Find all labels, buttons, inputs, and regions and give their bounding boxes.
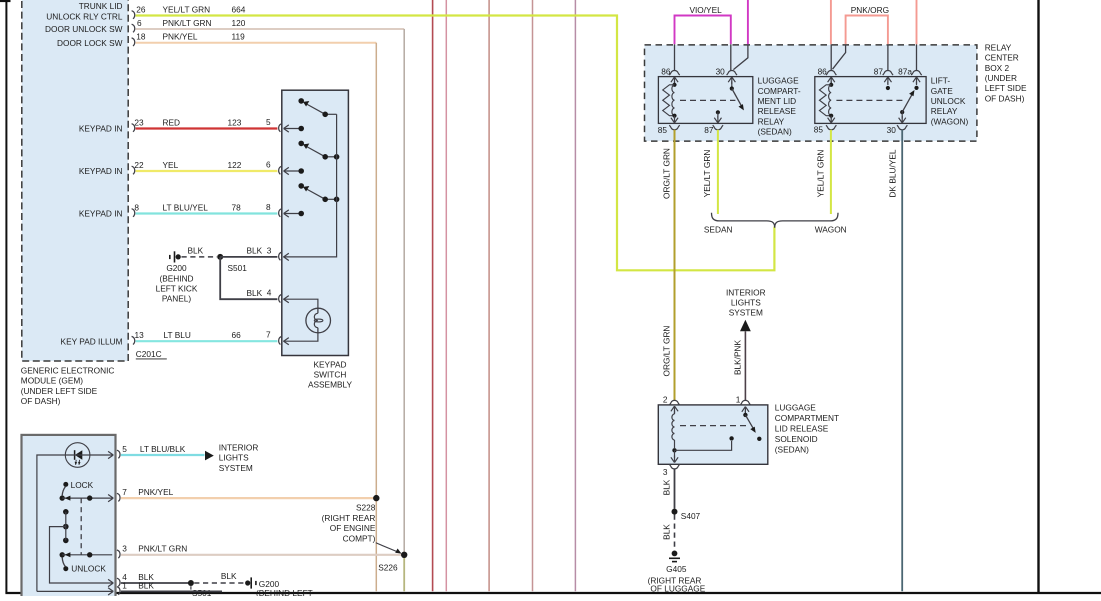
keypad switch assembly caption	[308, 359, 353, 389]
svg-text:LT BLU/BLK: LT BLU/BLK	[140, 444, 186, 454]
svg-text:KEYPAD IN: KEYPAD IN	[79, 209, 123, 219]
svg-text:BLK: BLK	[138, 581, 154, 591]
solenoid caption	[775, 403, 839, 455]
svg-text:85: 85	[658, 125, 668, 135]
svg-text:S501: S501	[228, 263, 248, 273]
svg-text:BLK/PNK: BLK/PNK	[732, 340, 742, 376]
svg-text:5: 5	[122, 444, 127, 454]
svg-text:30: 30	[887, 125, 897, 135]
GEM pin 18 connector	[132, 32, 246, 47]
svg-text:OF LUGGAGE: OF LUGGAGE	[650, 583, 705, 593]
GEM pin 8 connector	[132, 202, 271, 217]
relay center box 2 (dashed)	[645, 45, 977, 141]
svg-text:122: 122	[228, 160, 242, 170]
label BLK upper	[662, 479, 672, 495]
frame top-left corner stub	[0, 0, 11, 2]
wire LT BLU/YEL keypad row	[136, 212, 278, 214]
svg-text:26: 26	[136, 4, 146, 14]
keypad illumination lamp	[306, 308, 331, 333]
svg-text:LT BLU: LT BLU	[164, 330, 191, 340]
svg-text:LUGGAGE: LUGGAGE	[758, 76, 800, 86]
svg-text:18: 18	[136, 32, 146, 42]
svg-text:LOCK: LOCK	[71, 480, 94, 490]
svg-text:KEYPAD IN: KEYPAD IN	[79, 124, 123, 134]
svg-text:SWITCH: SWITCH	[314, 369, 347, 379]
wire YEL/LT GRN wagon pin 85 to brace	[830, 130, 832, 214]
svg-text:UNLOCK RLY CTRL: UNLOCK RLY CTRL	[46, 11, 123, 21]
svg-text:YEL/LT GRN: YEL/LT GRN	[702, 150, 712, 198]
wire BLK pin 4 to S501	[121, 582, 190, 584]
svg-text:BLK: BLK	[662, 524, 672, 540]
svg-text:RED: RED	[163, 117, 181, 127]
door lock switch pin 5 internal wire	[37, 451, 113, 591]
wagon relay caption	[931, 76, 969, 127]
svg-text:PNK/YEL: PNK/YEL	[163, 32, 198, 42]
svg-text:(RIGHT REAR: (RIGHT REAR	[322, 513, 376, 523]
splice S228	[373, 495, 379, 501]
svg-text:INTERIOR: INTERIOR	[726, 287, 766, 297]
splice S501 (keypad)	[217, 254, 247, 273]
svg-text:23: 23	[134, 117, 144, 127]
svg-text:1: 1	[122, 581, 127, 591]
svg-text:85: 85	[814, 125, 824, 135]
label BLK/PNK	[732, 340, 742, 376]
svg-text:123: 123	[228, 117, 242, 127]
svg-text:BLK: BLK	[247, 288, 263, 298]
svg-text:7: 7	[266, 330, 271, 340]
wire S226 lower segment olive	[403, 555, 405, 591]
keypad switch 3	[284, 183, 340, 217]
svg-text:LIGHTS: LIGHTS	[731, 298, 761, 308]
svg-text:ORG/LT GRN: ORG/LT GRN	[662, 326, 672, 377]
wire salmon vertical x489	[488, 0, 490, 591]
wire PNK/YEL pin 7 to S228	[121, 497, 376, 499]
svg-text:BLK: BLK	[247, 246, 263, 256]
relay center box 2 caption	[985, 42, 1027, 103]
keypad connector pin 8	[279, 209, 282, 217]
svg-text:YEL/LT GRN: YEL/LT GRN	[816, 150, 826, 198]
keypad lamp to pin 7 wire	[283, 332, 318, 345]
label YEL/LT GRN sedan	[702, 150, 712, 198]
svg-text:YEL: YEL	[163, 160, 179, 170]
svg-text:LEFT KICK: LEFT KICK	[156, 283, 198, 293]
svg-text:OF DASH): OF DASH)	[21, 396, 61, 406]
svg-text:SEDAN: SEDAN	[704, 224, 733, 234]
label SEDAN	[704, 224, 733, 234]
wire PNK/LT GRN pin 3 to S226	[121, 554, 404, 556]
door lock connector pin 1	[117, 581, 154, 595]
wire PNK/ORG from top edge to pin 87a	[916, 0, 918, 44]
svg-text:4: 4	[267, 288, 272, 298]
svg-text:1: 1	[736, 395, 741, 405]
label ORG/LT GRN lower	[662, 326, 672, 377]
svg-text:LEFT SIDE: LEFT SIDE	[985, 83, 1027, 93]
door lock switch LED diode	[75, 450, 83, 465]
frame bottom border line	[5, 592, 1101, 594]
svg-text:(WAGON): (WAGON)	[931, 116, 969, 126]
wire VIO/YEL from top edge	[747, 0, 749, 44]
luggage compartment lid release relay inner box	[658, 77, 752, 124]
svg-text:LIGHTS: LIGHTS	[219, 453, 249, 463]
wire RED keypad row	[136, 127, 278, 129]
door lock pin 1 internal row	[37, 588, 113, 595]
GEM pin 6 connector	[132, 18, 246, 33]
GEM pin 22 connector	[132, 160, 271, 175]
sedan relay switch blade	[730, 86, 744, 110]
wire LT BLU keypad illumination row	[136, 340, 278, 342]
svg-text:87a: 87a	[898, 67, 912, 77]
wire BLK dashed to S501	[182, 246, 218, 257]
svg-text:UNLOCK: UNLOCK	[931, 96, 966, 106]
sedan relay coil	[663, 83, 677, 118]
svg-text:GENERIC ELECTRONIC: GENERIC ELECTRONIC	[21, 366, 115, 376]
svg-text:PANEL): PANEL)	[162, 294, 192, 304]
svg-text:PNK/LT GRN: PNK/LT GRN	[138, 544, 187, 554]
label WAGON	[815, 224, 847, 234]
wire BLK pin 1	[121, 590, 222, 592]
keypad connector pin 5	[279, 124, 282, 132]
svg-text:(BEHIND: (BEHIND	[159, 273, 193, 283]
svg-text:86: 86	[661, 67, 671, 77]
GEM pin 23 connector	[132, 117, 271, 132]
svg-text:5: 5	[266, 117, 271, 127]
svg-text:3: 3	[663, 467, 668, 477]
wire PNK/ORG from top edge to pin 86	[830, 0, 832, 44]
ground G200 caption	[156, 263, 198, 304]
wagon relay pin 30	[887, 112, 908, 135]
sedan relay contact 87	[704, 110, 723, 135]
svg-text:WAGON: WAGON	[815, 224, 847, 234]
door lock connector pin 7	[117, 487, 174, 502]
svg-text:OF ENGINE: OF ENGINE	[330, 523, 376, 533]
svg-text:BLK: BLK	[188, 246, 204, 256]
label YEL/LT GRN wagon	[816, 150, 826, 198]
svg-text:BOX 2: BOX 2	[985, 63, 1010, 73]
solenoid mechanical dashed link	[680, 425, 750, 427]
svg-text:13: 13	[135, 330, 145, 340]
sedan relay mechanical dashed link	[680, 99, 735, 101]
sedan relay pin 85	[658, 116, 680, 135]
wagon relay pin 87	[874, 44, 893, 90]
svg-text:SYSTEM: SYSTEM	[219, 463, 253, 473]
GEM caption text	[21, 366, 115, 406]
svg-text:S226: S226	[378, 562, 398, 572]
svg-text:RELAY: RELAY	[985, 42, 1012, 52]
door lock middle contact chain	[63, 509, 69, 543]
label ORG/LT GRN upper	[662, 148, 672, 199]
solenoid pin 2	[663, 395, 680, 415]
solenoid internal contact wire	[675, 436, 734, 450]
svg-text:VIO/YEL: VIO/YEL	[689, 5, 722, 15]
svg-text:(UNDER: (UNDER	[985, 73, 1017, 83]
svg-text:KEYPAD: KEYPAD	[313, 359, 346, 369]
wire LT BLU/BLK to interior lights	[121, 454, 205, 456]
wire BLK keypad pin 3	[220, 246, 277, 257]
svg-text:2: 2	[663, 395, 668, 405]
wire BLK S501 to keypad pin 4	[220, 257, 277, 299]
wire ORG/LT GRN relay 85 to solenoid pin 2	[674, 130, 676, 401]
svg-text:119: 119	[232, 32, 246, 42]
svg-text:INTERIOR: INTERIOR	[219, 443, 259, 453]
keypad connector pin 6	[279, 166, 282, 174]
svg-text:COMPT): COMPT)	[343, 533, 376, 543]
svg-text:120: 120	[232, 18, 246, 28]
wire rose vertical x576	[574, 0, 576, 591]
brace joining sedan and wagon wires	[712, 213, 839, 228]
door lock common wire to pin 4	[50, 527, 114, 587]
solenoid coil	[672, 414, 677, 452]
arrow from S228 caption to splice S226	[376, 543, 402, 554]
wire BLK/PNK solenoid pin 1 up	[744, 331, 746, 400]
door lock LOCK blade	[62, 480, 93, 495]
door lock connector pin 3	[117, 544, 187, 559]
keypad connector pin 3	[279, 252, 282, 260]
wire PNK/YEL from GEM pin 18 down column x376	[136, 43, 377, 592]
svg-text:LUGGAGE: LUGGAGE	[775, 403, 817, 413]
solenoid pin 3	[663, 450, 680, 477]
keypad connector pin 4 and lamp feed	[279, 294, 318, 309]
keypad switch 1	[284, 98, 337, 132]
svg-text:6: 6	[137, 18, 142, 28]
svg-text:C201C: C201C	[136, 349, 162, 359]
svg-text:SYSTEM: SYSTEM	[729, 308, 763, 318]
svg-text:87: 87	[704, 125, 714, 135]
wire RED vertical x433	[432, 0, 434, 591]
svg-text:KEYPAD IN: KEYPAD IN	[79, 166, 123, 176]
svg-text:BLK: BLK	[662, 479, 672, 495]
label BLK lower	[662, 524, 672, 540]
svg-text:22: 22	[134, 160, 144, 170]
door lock connector pin 5	[117, 444, 186, 459]
svg-text:3: 3	[267, 246, 272, 256]
interior lights system text (middle)	[726, 287, 766, 317]
ground G405 symbol	[669, 551, 680, 562]
door lock pin 3 internal row	[62, 552, 112, 557]
frame left border line	[5, 0, 7, 593]
GEM pin 26 connector	[132, 4, 246, 18]
svg-text:DK BLU/YEL: DK BLU/YEL	[888, 149, 898, 197]
wagon relay pin 85	[814, 116, 837, 135]
svg-text:MENT LID: MENT LID	[758, 96, 797, 106]
svg-text:S407: S407	[681, 511, 701, 521]
svg-text:ASSEMBLY: ASSEMBLY	[308, 379, 353, 389]
S228 caption	[322, 503, 376, 544]
svg-text:KEY PAD ILLUM: KEY PAD ILLUM	[61, 336, 123, 346]
splice S226	[378, 552, 407, 573]
ground G405 caption	[648, 564, 706, 593]
svg-text:BLK: BLK	[221, 571, 237, 581]
door lock switch LED circle	[65, 443, 90, 468]
svg-text:UNLOCK: UNLOCK	[71, 564, 106, 574]
door lock pin 7 internal row	[60, 495, 114, 502]
ground G200 symbol (keypad)	[170, 251, 181, 262]
keypad connector pin 7	[279, 336, 282, 344]
svg-text:8: 8	[266, 202, 271, 212]
svg-text:G405: G405	[666, 564, 687, 574]
wire YEL/LT GRN net from GEM pin 26 to relay brace	[136, 16, 775, 271]
svg-text:30: 30	[716, 67, 726, 77]
wire YEL keypad row	[136, 170, 278, 172]
svg-text:RELAY: RELAY	[758, 116, 785, 126]
svg-text:SOLENOID: SOLENOID	[775, 434, 818, 444]
svg-text:PNK/ORG: PNK/ORG	[851, 5, 889, 15]
svg-text:(SEDAN): (SEDAN)	[758, 127, 792, 137]
wire salmon vertical x533	[532, 0, 534, 591]
door lock connector pin 4	[117, 572, 154, 587]
wire PNK/LT GRN from GEM pin 6 down column x404	[136, 29, 405, 555]
GEM module box (GENERIC ELECTRONIC MODULE)	[22, 0, 128, 361]
door lock switch box	[22, 435, 116, 601]
svg-text:LT BLU/YEL: LT BLU/YEL	[163, 202, 209, 212]
svg-text:DOOR LOCK SW: DOOR LOCK SW	[57, 38, 123, 48]
svg-text:DOOR UNLOCK SW: DOOR UNLOCK SW	[45, 24, 123, 34]
GEM pin 13 connector	[132, 330, 271, 345]
connector label C201C	[136, 349, 167, 359]
frame right border line	[1037, 0, 1039, 593]
svg-text:OF DASH): OF DASH)	[985, 93, 1025, 103]
luggage compartment lid release solenoid box	[658, 405, 768, 464]
svg-text:RELEASE: RELEASE	[758, 106, 797, 116]
svg-text:PNK/YEL: PNK/YEL	[138, 487, 173, 497]
svg-text:3: 3	[122, 544, 127, 554]
wagon relay coil	[819, 83, 833, 118]
solenoid pin 1	[736, 395, 751, 414]
svg-text:YEL/LT GRN: YEL/LT GRN	[163, 4, 211, 14]
svg-text:8: 8	[134, 202, 139, 212]
svg-text:6: 6	[266, 160, 271, 170]
arrow to interior lights system (left)	[205, 451, 214, 461]
wagon relay pin 86	[818, 44, 846, 84]
svg-text:86: 86	[818, 67, 828, 77]
sedan relay pin 86	[661, 44, 679, 84]
wire YEL/LT GRN sedan pin 87 to brace	[717, 130, 719, 214]
label DK BLU/YEL	[888, 149, 898, 197]
sedan relay pin 30	[716, 44, 748, 88]
svg-text:PNK/LT GRN: PNK/LT GRN	[163, 18, 212, 28]
wire DK BLU/YEL wagon pin 30 down	[901, 130, 903, 592]
wire VIO/YEL loop to sedan relay	[675, 5, 731, 44]
wire PNK/ORG loop to wagon relay	[846, 5, 889, 44]
wire BLK solenoid pin 3 to S407	[674, 469, 676, 509]
keypad switch 2	[284, 141, 340, 175]
svg-text:LIFT-: LIFT-	[931, 76, 951, 86]
solenoid switch blade	[743, 413, 761, 441]
wire BLK dashed to ground G200 (door lock)	[194, 571, 245, 583]
svg-text:G200: G200	[166, 263, 187, 273]
svg-text:7: 7	[122, 487, 127, 497]
svg-text:CENTER: CENTER	[985, 53, 1019, 63]
keypad switch assembly box	[282, 90, 349, 355]
svg-text:78: 78	[232, 202, 242, 212]
keypad common bus wire	[283, 114, 336, 260]
splice S407	[672, 509, 701, 521]
svg-text:66: 66	[232, 330, 242, 340]
svg-text:(BEHIND LEFT: (BEHIND LEFT	[256, 588, 313, 596]
svg-text:87: 87	[874, 67, 884, 77]
wagon relay mechanical dashed link	[836, 99, 906, 101]
GEM internal pin labels	[45, 1, 123, 347]
door lock mechanical dashed link	[80, 498, 82, 555]
splice S501 (door lock)	[188, 580, 212, 598]
svg-text:S228: S228	[356, 503, 376, 513]
wagon relay switch blade	[900, 90, 914, 114]
svg-text:664: 664	[232, 4, 246, 14]
ground G200 symbol (door lock)	[245, 577, 256, 588]
svg-text:(UNDER LEFT SIDE: (UNDER LEFT SIDE	[21, 386, 98, 396]
ground G200 caption (door lock)	[256, 579, 313, 598]
svg-text:(SEDAN): (SEDAN)	[775, 444, 809, 454]
svg-text:COMPART-: COMPART-	[758, 86, 801, 96]
svg-text:RELAY: RELAY	[931, 106, 958, 116]
svg-text:MODULE (GEM): MODULE (GEM)	[21, 376, 83, 386]
svg-text:ORG/LT GRN: ORG/LT GRN	[662, 148, 672, 199]
door lock UNLOCK blade	[60, 552, 107, 573]
lift-gate unlock relay inner box	[815, 77, 926, 124]
svg-text:LID RELEASE: LID RELEASE	[775, 424, 829, 434]
arrow to interior lights system (middle)	[740, 320, 751, 331]
wire PNK vertical x446	[445, 0, 447, 591]
wire BLK dashed S407 to G405	[674, 515, 676, 550]
sedan relay caption	[758, 76, 801, 137]
svg-text:GATE: GATE	[931, 86, 953, 96]
svg-text:COMPARTMENT: COMPARTMENT	[775, 413, 839, 423]
wagon relay pin 87a	[898, 44, 922, 90]
svg-text:TRUNK LID: TRUNK LID	[79, 1, 123, 11]
interior lights system text (left)	[219, 443, 259, 473]
